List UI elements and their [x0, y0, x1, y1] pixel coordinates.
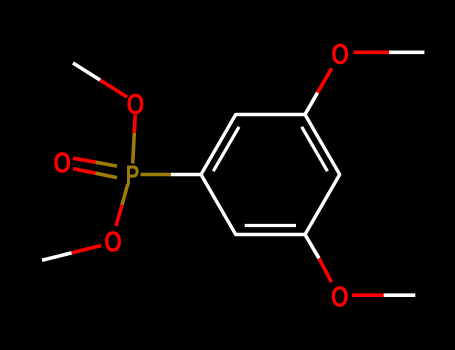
- svg-text:O: O: [104, 225, 122, 258]
- svg-text:O: O: [331, 280, 349, 313]
- wire O(ring bottom)-C5: [319, 258, 331, 282]
- double bond inner line C5=C6: [245, 224, 296, 227]
- double bond inner line C3=C4: [302, 127, 328, 171]
- wire O(ring bottom)-CH3: [352, 293, 384, 297]
- wire P-C1 gold half: [141, 173, 171, 177]
- wire P-C1 white half: [171, 173, 201, 177]
- svg-text:O: O: [331, 37, 349, 70]
- wire P-O(bottom ester): [122, 184, 128, 205]
- wire O(top ester)-CH3: [100, 80, 127, 97]
- svg-text:O: O: [126, 87, 144, 120]
- svg-text:O: O: [53, 146, 71, 179]
- wire P-O(top ester): [133, 133, 135, 164]
- svg-text:P: P: [126, 161, 140, 192]
- wire O(ring top)-CH3: [354, 50, 390, 54]
- double bond P=O upper line: [73, 158, 96, 162]
- wire O(ring top)-C3: [318, 68, 332, 92]
- wire O(bottom ester)-CH3: [72, 246, 102, 253]
- double bond inner line C1=C2: [213, 127, 239, 171]
- double bond P=O lower line: [73, 169, 96, 174]
- benzene ring C1-C6: [201, 115, 340, 235]
